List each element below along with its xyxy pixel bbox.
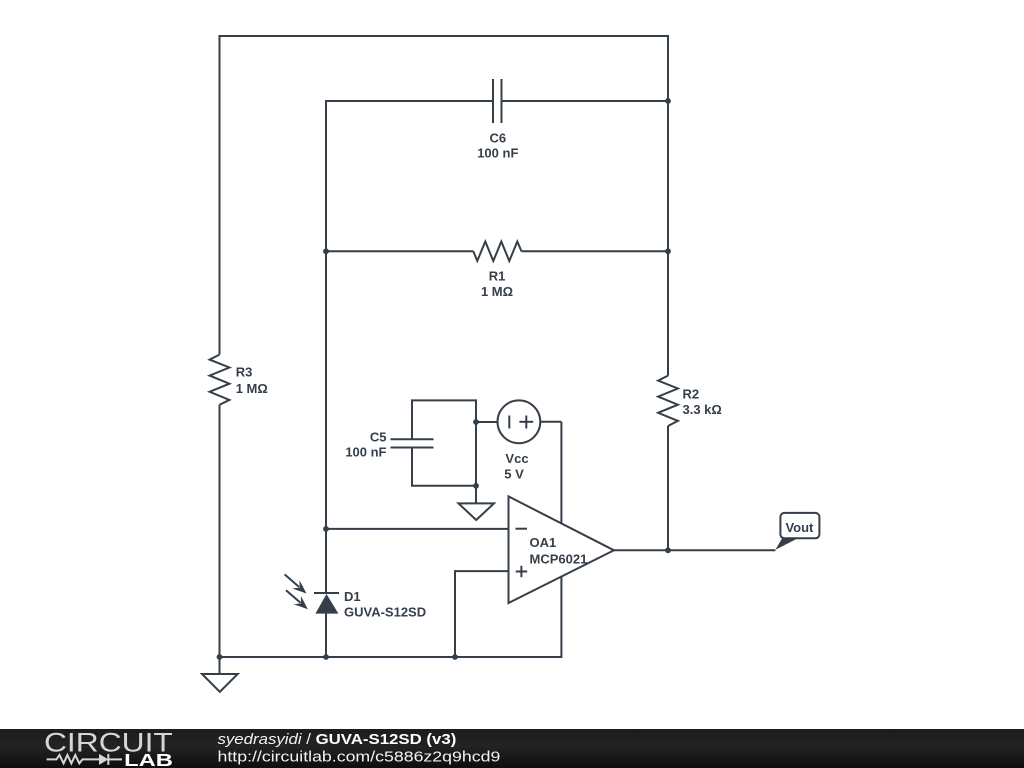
svg-text:R3: R3 <box>236 365 253 380</box>
svg-text:Vcc: Vcc <box>505 451 528 466</box>
svg-text:Vout: Vout <box>785 520 814 535</box>
svg-text:5 V: 5 V <box>504 467 524 482</box>
svg-text:100 nF: 100 nF <box>477 146 518 161</box>
svg-text:OA1: OA1 <box>530 535 557 550</box>
svg-text:3.3 kΩ: 3.3 kΩ <box>683 402 722 417</box>
svg-text:100 nF: 100 nF <box>345 444 386 459</box>
svg-text:syedrasyidi / GUVA-S12SD (v3): syedrasyidi / GUVA-S12SD (v3) <box>218 732 457 748</box>
svg-text:MCP6021: MCP6021 <box>530 551 588 566</box>
svg-text:GUVA-S12SD: GUVA-S12SD <box>344 604 426 619</box>
svg-text:http://circuitlab.com/c5886z2q: http://circuitlab.com/c5886z2q9hcd9 <box>218 750 501 766</box>
svg-text:R2: R2 <box>683 387 700 402</box>
svg-text:C6: C6 <box>489 131 506 146</box>
svg-text:R1: R1 <box>489 269 506 284</box>
svg-text:C5: C5 <box>370 429 387 444</box>
svg-text:D1: D1 <box>344 589 361 604</box>
svg-text:1 MΩ: 1 MΩ <box>481 284 513 299</box>
svg-text:LAB: LAB <box>124 750 173 768</box>
svg-text:1 MΩ: 1 MΩ <box>236 381 268 396</box>
